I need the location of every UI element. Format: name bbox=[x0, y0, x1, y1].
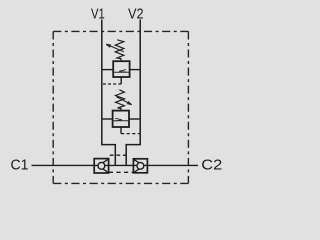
check valve CV2 ball bbox=[137, 162, 144, 169]
relief valve RV2 box bbox=[113, 111, 129, 127]
wire RV2 spring stub bbox=[120, 108, 122, 111]
relief valve RV2 flow path line bbox=[113, 120, 129, 122]
relief valve RV2 spring bbox=[116, 90, 125, 109]
svg-text:V1: V1 bbox=[91, 5, 105, 22]
wire V2 line (vertical, down then left to bottom junction) bbox=[126, 20, 140, 166]
wire V1 line (vertical, down then right to bottom junction) bbox=[102, 20, 116, 166]
svg-text:C2: C2 bbox=[201, 156, 222, 173]
wire RV1 left port bbox=[102, 69, 113, 71]
pilot line upper cross (dashed) bbox=[110, 154, 127, 156]
pilot line RV1 (dashed to V1) bbox=[102, 83, 121, 85]
wire RV1 right port bbox=[130, 69, 141, 71]
relief valve RV1 adjustment arrow (points upper-left) bbox=[106, 44, 124, 52]
svg-text:C1: C1 bbox=[11, 156, 29, 173]
wire C1-C2 main horizontal line bbox=[32, 164, 199, 166]
boundary box (valve body, dash-dot) bbox=[53, 31, 188, 183]
relief valve RV2 adjustment arrow (points lower-right) bbox=[116, 97, 131, 105]
relief valve RV1 flow path line bbox=[113, 71, 129, 73]
svg-text:V2: V2 bbox=[128, 5, 144, 22]
relief valve RV1 spring bbox=[115, 40, 124, 59]
wire RV1 spring stub bbox=[120, 58, 122, 61]
relief valve RV1 box bbox=[113, 61, 129, 77]
relief valve RV2 flow arrow (points right) bbox=[115, 118, 122, 121]
relief valve RV1 flow arrow (points left) bbox=[119, 70, 126, 73]
wire RV2 pilot stub bbox=[120, 127, 122, 134]
wire RV2 right port bbox=[129, 118, 140, 120]
wire RV1 pilot stub bbox=[120, 77, 122, 84]
pilot line RV2 (dashed to V2) bbox=[121, 133, 140, 135]
check valve CV2 box bbox=[133, 159, 147, 173]
check valve CV2 seat bbox=[134, 159, 144, 172]
check valve CV1 box bbox=[94, 159, 108, 173]
check valve CV1 seat bbox=[98, 159, 108, 172]
check valve CV1 ball bbox=[98, 162, 105, 169]
wire RV2 left port bbox=[102, 118, 113, 120]
pilot line lower cross (dashed) bbox=[109, 171, 133, 173]
